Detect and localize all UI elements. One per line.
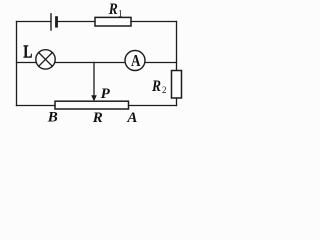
wire middle center segment [55, 62, 125, 64]
wire middle left segment [17, 62, 36, 64]
svg-text:L: L [23, 42, 32, 62]
wire R1 to top-right corner [131, 21, 177, 23]
wire middle right segment [145, 62, 177, 64]
wire battery to R1 [57, 21, 96, 23]
ammeter A [125, 51, 145, 71]
svg-text:B: B [47, 110, 58, 126]
resistor R1 [95, 17, 131, 26]
wire bottom right segment [129, 105, 177, 107]
battery B1 [51, 14, 57, 30]
slider P arrowhead [91, 95, 97, 101]
wire R2 bottom stub [176, 98, 178, 106]
lamp L [36, 50, 55, 69]
wire right side vertical [176, 22, 178, 71]
wire bottom left segment [17, 105, 56, 107]
svg-text:R: R [151, 78, 161, 95]
svg-text:P: P [101, 86, 111, 102]
svg-text:R: R [108, 1, 118, 18]
svg-text:A: A [131, 51, 141, 70]
wire top-left segment [17, 21, 52, 23]
rheostat R body [55, 101, 129, 109]
svg-text:R: R [92, 110, 103, 126]
slider P shaft [93, 63, 95, 97]
svg-text:2: 2 [162, 85, 167, 95]
wire left side vertical [16, 22, 18, 106]
resistor R2 [172, 71, 182, 99]
svg-text:A: A [126, 110, 137, 126]
svg-text:1: 1 [118, 9, 123, 19]
